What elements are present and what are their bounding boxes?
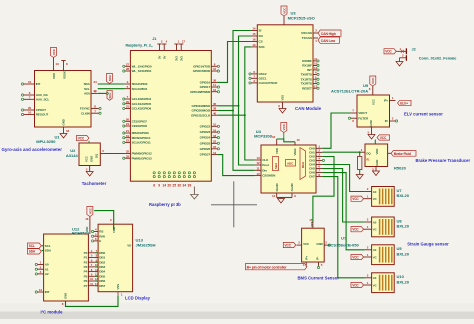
U2 power flag: [77, 136, 90, 144]
U13 reference and value fields: [136, 237, 156, 247]
svg-text:CLKOUT/SOF: CLKOUT/SOF: [259, 81, 278, 85]
svg-text:VCC: VCC: [303, 242, 310, 246]
wire tap GPIO19 MISO: [217, 105, 238, 107]
U1 left pins: [21, 80, 34, 115]
svg-text:TX2RTS: TX2RTS: [301, 82, 312, 86]
svg-text:TX0RTS: TX0RTS: [301, 73, 312, 77]
svg-text:Conn_01x02_Female: Conn_01x02_Female: [419, 56, 457, 60]
IMU U1 MPU-9250 body: [35, 71, 92, 128]
svg-text:26: 26: [126, 118, 130, 122]
wire CH4 to strain gauge 1: [322, 165, 364, 192]
svg-text:P4: P4: [84, 270, 88, 274]
annotation raspberry pi 3b: [149, 202, 181, 207]
svg-text:ACS712ELCTR-20A: ACS712ELCTR-20A: [331, 88, 368, 93]
svg-text:P3: P3: [84, 265, 88, 269]
svg-text:SDA: SDA: [108, 74, 112, 81]
connector J1 Raspberry Pi 3b body: [130, 51, 211, 182]
svg-text:SI: SI: [259, 29, 262, 33]
svg-text:VCC: VCC: [385, 50, 392, 54]
U11 VIOUT pin: [309, 218, 313, 228]
wire GPIO27 to MCP CS: [217, 155, 254, 176]
svg-text:A0: A0: [373, 190, 377, 194]
U4 ground symbol: [278, 198, 285, 204]
svg-text:DB1: DB1: [99, 256, 105, 260]
U1 pin names: [36, 69, 91, 125]
svg-text:GCLK2/GPIO6: GCLK2/GPIO6: [132, 107, 152, 111]
svg-text:VCC: VCC: [371, 77, 375, 84]
wire tap GPIO21 SCLK: [217, 114, 244, 116]
svg-text:CPOUT: CPOUT: [36, 108, 46, 112]
wire CAN SO to MCP Dout: [239, 36, 255, 165]
J1 left pin names: [132, 64, 152, 160]
J1 top power pins: [157, 40, 185, 62]
svg-text:U5: U5: [397, 246, 403, 251]
svg-text:JM1625SH: JM1625SH: [136, 242, 156, 247]
svg-text:11: 11: [257, 167, 260, 171]
svg-text:U9: U9: [363, 83, 369, 88]
svg-text:14: 14: [272, 194, 276, 198]
svg-text:J2: J2: [412, 47, 416, 51]
svg-text:MUX: MUX: [301, 162, 305, 168]
svg-text:PWM0/GPIO12: PWM0/GPIO12: [132, 152, 152, 156]
svg-text:11: 11: [94, 105, 97, 109]
svg-text:32: 32: [126, 150, 130, 154]
wire tap GPIO20 MOSI: [217, 110, 233, 112]
U4 bottom ground pins: [272, 193, 296, 198]
resistor ground: [356, 175, 363, 180]
svg-text:VCC: VCC: [352, 255, 359, 259]
junction MOSI bus: [232, 110, 234, 112]
svg-text:SCL: SCL: [29, 244, 35, 248]
svg-text:REGOUT: REGOUT: [36, 113, 49, 117]
svg-text:VIOUT: VIOUT: [310, 219, 314, 228]
svg-text:IP-: IP-: [316, 257, 320, 260]
svg-text:GND: GND: [369, 120, 373, 126]
svg-text:Raspberry_Pi_3.,.: Raspberry_Pi_3.,.: [126, 44, 154, 48]
svg-text:23: 23: [126, 139, 130, 143]
svg-text:38: 38: [213, 107, 217, 111]
svg-text:VIOUT: VIOUT: [358, 111, 367, 115]
svg-text:18: 18: [66, 129, 70, 133]
U1 right pins: [91, 80, 101, 114]
U4 power flag: [281, 123, 287, 140]
U4 reference and value fields: [254, 129, 273, 139]
svg-text:16: 16: [213, 128, 217, 132]
brake sensor power flag: [375, 135, 389, 144]
U4 left pin stubs and numbers: [255, 156, 261, 176]
svg-text:P1: P1: [84, 256, 88, 260]
svg-text:Brake Fluid: Brake Fluid: [394, 152, 411, 156]
pressure sensor U6 RS5020 body: [365, 144, 388, 167]
annotation gyro and accelerometer: [2, 147, 63, 152]
svg-text:GND: GND: [64, 293, 68, 299]
svg-text:6: 6: [153, 183, 155, 187]
svg-text:IP+: IP+: [305, 256, 309, 260]
svg-text:40: 40: [213, 111, 217, 115]
svg-text:10: 10: [256, 172, 260, 176]
junction MISO bus: [238, 105, 240, 107]
svg-text:Dout: Dout: [262, 163, 269, 167]
svg-text:R/W: R/W: [99, 234, 105, 238]
U12 address pins: [35, 261, 43, 275]
svg-text:DB6: DB6: [99, 279, 105, 283]
svg-text:A0: A0: [373, 248, 377, 252]
label SDA to U12: [28, 249, 44, 254]
svg-text:PWM1/GPIO13: PWM1/GPIO13: [132, 156, 152, 160]
brake sensor right label Brake Fluid: [388, 151, 416, 157]
svg-text:INT: INT: [36, 82, 41, 86]
svg-text:U7: U7: [397, 188, 403, 193]
svg-text:10: 10: [213, 67, 217, 71]
annotation tachometer: [82, 181, 107, 186]
label B+ pin of motor controller: [245, 264, 307, 270]
svg-text:CAN Low: CAN Low: [321, 39, 336, 43]
wire joining U4 grounds: [277, 197, 292, 199]
junction SCLK bus: [244, 114, 246, 116]
svg-text:36: 36: [213, 79, 217, 83]
current sensor U9 ACS712 body: [357, 95, 390, 127]
svg-text:U?: U?: [341, 236, 347, 241]
svg-text:CE0/GPIO8: CE0/GPIO8: [132, 124, 148, 128]
svg-text:14: 14: [162, 183, 166, 187]
power flag above U1: [51, 48, 57, 61]
svg-text:MCP2515-xSO: MCP2515-xSO: [288, 16, 315, 21]
svg-text:VSS: VSS: [281, 95, 285, 101]
U11 reference and value fields: [328, 236, 360, 248]
strain gauge U8 BXL20 body: [372, 217, 395, 237]
svg-text:33: 33: [126, 154, 130, 158]
svg-text:13: 13: [256, 156, 260, 160]
svg-text:MCP3208: MCP3208: [254, 134, 273, 139]
open wire end AD0: [106, 92, 108, 94]
svg-text:20: 20: [28, 106, 32, 110]
junction brake wire resistor: [359, 151, 361, 153]
hall sensor U2 A3144 body: [79, 143, 100, 166]
wire VCC to VDD and VREF: [277, 139, 295, 142]
U4 internal sample block: [273, 157, 279, 171]
svg-text:GPIO23: GPIO23: [200, 130, 211, 134]
svg-text:VCC: VCC: [282, 123, 286, 130]
U4 top power pins: [272, 135, 300, 145]
svg-text:28: 28: [126, 67, 130, 71]
U10 power label: [351, 282, 364, 287]
svg-text:VCC: VCC: [78, 136, 85, 140]
svg-text:VCC: VCC: [352, 197, 359, 201]
svg-text:GND: GND: [375, 160, 379, 166]
svg-text:BXL20: BXL20: [397, 279, 410, 284]
svg-text:FILTER: FILTER: [358, 116, 369, 120]
svg-text:SCK: SCK: [259, 45, 266, 49]
J1 reference and name: [126, 37, 157, 47]
svg-text:16: 16: [252, 38, 256, 42]
svg-text:3V3: 3V3: [179, 56, 183, 61]
U12 reference and value fields: [72, 227, 90, 236]
svg-text:SDA/GPIO2: SDA/GPIO2: [132, 82, 148, 86]
wire CH1 to brake sensor: [322, 151, 358, 153]
strain gauge U7 BXL20 body: [372, 187, 395, 207]
svg-text:14: 14: [252, 27, 256, 31]
wire U2 DQ to J1 PWM0: [105, 153, 125, 155]
svg-text:18: 18: [213, 134, 217, 138]
svg-text:P6: P6: [84, 279, 88, 283]
svg-text:5V: 5V: [162, 56, 166, 59]
U8 reference and value fields: [397, 218, 410, 228]
svg-text:WL_SC/GPIO1: WL_SC/GPIO1: [132, 69, 152, 73]
annotation ELV current sensor: [404, 112, 443, 117]
svg-text:VCC: VCC: [352, 283, 359, 287]
annotation strain gauge sensor: [407, 242, 449, 247]
svg-text:GPIO22: GPIO22: [200, 124, 211, 128]
svg-text:13: 13: [55, 62, 59, 66]
svg-text:Tachometer: Tachometer: [82, 181, 107, 186]
svg-text:DB5: DB5: [99, 274, 105, 278]
svg-text:VCC: VCC: [88, 207, 92, 214]
U9 pins: [348, 96, 397, 123]
U3 left pin stubs and numbers: [251, 27, 257, 47]
svg-text:VDD: VDD: [375, 149, 379, 155]
annotation LCD display: [125, 296, 151, 301]
svg-text:23: 23: [93, 89, 97, 93]
svg-text:INT: INT: [307, 68, 312, 72]
svg-text:30: 30: [177, 183, 181, 187]
brake sensor left pin: [359, 148, 365, 152]
svg-text:16: 16: [85, 217, 89, 221]
U13 left pin stubs: [92, 228, 99, 242]
svg-text:SDA: SDA: [29, 250, 36, 254]
svg-text:GPIO25: GPIO25: [200, 141, 211, 145]
CH3 open pin: [322, 159, 324, 161]
U9 reference and value fields: [331, 83, 369, 94]
U7 power label: [351, 196, 364, 201]
J1 ground symbol: [191, 187, 199, 200]
svg-text:IP+: IP+: [384, 99, 389, 103]
U13 VDD wire to VCC net: [94, 211, 114, 230]
svg-text:ELV+: ELV+: [400, 101, 408, 105]
svg-text:CLKIN: CLKIN: [81, 111, 91, 115]
editor crosshair cursor: [211, 181, 257, 227]
svg-text:CAN Module: CAN Module: [295, 106, 322, 111]
svg-text:9: 9: [158, 183, 160, 187]
annotation I2C module: [41, 310, 64, 315]
svg-text:PCF8574: PCF8574: [72, 230, 90, 235]
svg-text:SCL/GPIO3: SCL/GPIO3: [132, 87, 148, 91]
svg-text:R5020: R5020: [394, 165, 407, 170]
U1 bottom GND pin and ground: [60, 127, 69, 138]
svg-text:RS: RS: [99, 230, 103, 234]
J1 bottom ground pin markers: [153, 172, 195, 178]
U4 pin names: [262, 146, 315, 191]
annotation BMS current sensor: [298, 276, 340, 281]
svg-text:22: 22: [213, 140, 217, 144]
svg-text:RX1BF: RX1BF: [302, 64, 312, 68]
wire CH5 to strain gauge 2: [322, 169, 364, 222]
svg-text:CS/SHDN: CS/SHDN: [262, 174, 276, 178]
svg-text:21: 21: [126, 129, 130, 133]
svg-text:AUX_SCL: AUX_SCL: [36, 97, 50, 101]
wire CAN CS to GPIO16: [217, 42, 251, 83]
U12 INT pin: [35, 288, 43, 293]
label SDA on wire: [107, 74, 113, 84]
svg-text:U10: U10: [397, 274, 405, 279]
svg-text:SCL: SCL: [84, 87, 90, 91]
LCD U13 body: [98, 224, 133, 292]
svg-text:A2: A2: [45, 272, 49, 276]
svg-text:BMS Current Sensor: BMS Current Sensor: [298, 276, 340, 281]
svg-text:VCC: VCC: [285, 243, 292, 247]
annotation CAN module: [295, 106, 322, 111]
U3 right lower pins unconnected: [313, 57, 319, 89]
svg-text:31: 31: [126, 105, 130, 109]
svg-text:Gyro-axis and accelerometer: Gyro-axis and accelerometer: [2, 147, 63, 152]
svg-text:GCLK0/GPIO4: GCLK0/GPIO4: [132, 97, 152, 101]
svg-text:VREF: VREF: [293, 148, 297, 156]
svg-text:13: 13: [252, 43, 256, 47]
svg-text:Din: Din: [262, 168, 267, 172]
svg-text:VCC: VCC: [52, 48, 56, 55]
svg-text:24: 24: [93, 80, 97, 84]
wire CH6 to strain gauge 3: [322, 173, 364, 250]
svg-text:12: 12: [256, 161, 260, 165]
svg-text:Raspberry pI 3b: Raspberry pI 3b: [149, 202, 181, 207]
label ELV plus: [398, 100, 412, 105]
pulldown resistor R1: [358, 152, 362, 174]
U9 power flag: [369, 76, 376, 95]
U12 power flag: [85, 207, 93, 235]
wire SCL net U1 to J1: [98, 88, 125, 90]
svg-text:GND: GND: [90, 156, 94, 162]
svg-text:39: 39: [188, 183, 192, 187]
svg-text:GPIO18/PWM0: GPIO18/PWM0: [190, 90, 210, 94]
svg-text:VDD: VDD: [52, 72, 56, 79]
svg-text:GPIO27: GPIO27: [200, 153, 211, 157]
svg-text:CE1/GPIO7: CE1/GPIO7: [132, 119, 148, 123]
U8 power label: [351, 227, 364, 232]
svg-text:VDD: VDD: [275, 148, 279, 154]
wire CAN SI to MCP Din: [233, 31, 255, 171]
wire CH7 to strain gauge 4: [322, 177, 364, 278]
J2 no-connect cross: [401, 50, 404, 53]
svg-text:RXCAN: RXCAN: [301, 31, 312, 35]
U2 output pin to J1: [100, 149, 104, 154]
wire U1 AD0 stub: [98, 92, 107, 94]
U2 ground: [86, 166, 93, 177]
svg-text:E: E: [99, 239, 101, 243]
svg-text:AGND: AGND: [290, 183, 294, 191]
annotation brake pressure transducer: [416, 158, 471, 163]
U12 right pin numbers: [88, 249, 98, 286]
svg-text:P7: P7: [84, 284, 88, 288]
svg-text:VCC: VCC: [282, 7, 286, 14]
U11 GND pin: [324, 241, 330, 247]
svg-text:29: 29: [126, 100, 130, 104]
brake sensor ground: [372, 167, 379, 176]
svg-text:VCC: VCC: [371, 98, 375, 105]
svg-text:ACS758xCB-050: ACS758xCB-050: [328, 242, 360, 247]
svg-text:ELV current sensor: ELV current sensor: [404, 112, 443, 117]
label SCL on wire: [107, 90, 112, 100]
svg-text:INT: INT: [45, 290, 50, 294]
svg-text:RESET: RESET: [302, 86, 312, 90]
svg-text:5V: 5V: [158, 56, 162, 59]
U4 internal ADC block: [286, 160, 296, 167]
U3 reference and value fields: [288, 10, 315, 20]
U3 bottom VSS ground: [278, 102, 286, 113]
U3 pin names: [259, 29, 313, 101]
label SCL to U12: [28, 243, 44, 248]
U8 pins: [364, 218, 372, 230]
svg-text:BXL20: BXL20: [397, 251, 410, 256]
svg-text:VCC: VCC: [380, 136, 387, 140]
svg-text:15: 15: [296, 138, 300, 142]
CAN controller U3 MCP2515 body: [257, 25, 313, 102]
label CAN High: [318, 30, 341, 36]
svg-text:SCL: SCL: [108, 92, 112, 98]
svg-text:RX0BF: RX0BF: [302, 59, 312, 63]
svg-text:GPIO20/MOSI: GPIO20/MOSI: [191, 109, 210, 113]
svg-text:27: 27: [126, 63, 130, 67]
J1 left pin stubs and numbers: [123, 63, 131, 160]
strain gauge U5 BXL20 body: [372, 245, 395, 265]
svg-text:AD0: AD0: [84, 92, 90, 96]
ADC U4 MCP3208 body: [261, 145, 316, 193]
wire CH2 to BMS VIOUT: [313, 157, 334, 223]
wire CH0 to ELV VIOUT: [322, 113, 350, 148]
svg-text:GPIO19/MISO: GPIO19/MISO: [191, 104, 210, 108]
svg-text:SDA: SDA: [84, 82, 91, 86]
svg-text:CLK: CLK: [262, 158, 269, 162]
svg-text:P2: P2: [84, 260, 88, 264]
svg-text:P5: P5: [84, 274, 88, 278]
svg-text:BXL20: BXL20: [397, 224, 410, 229]
J1 bottom pin numbers: [153, 183, 191, 187]
svg-text:Brake Pressure Transducer: Brake Pressure Transducer: [416, 158, 471, 163]
J2 power label VCC: [384, 49, 396, 54]
svg-text:SCL: SCL: [45, 244, 51, 248]
connector J2 body: [396, 47, 406, 61]
svg-text:11: 11: [90, 282, 93, 286]
svg-text:OSC1: OSC1: [259, 76, 267, 80]
svg-text:3V3: 3V3: [175, 56, 179, 61]
U7 pins: [364, 187, 372, 199]
svg-text:VSS: VSS: [116, 284, 120, 290]
svg-text:J1: J1: [152, 37, 156, 41]
svg-text:DB3: DB3: [99, 265, 105, 269]
svg-text:DB7: DB7: [99, 284, 105, 288]
svg-text:WL_SA/GPIO0: WL_SA/GPIO0: [132, 64, 152, 68]
svg-text:A1: A1: [45, 267, 49, 271]
J2 reference and value fields: [412, 47, 457, 60]
U4 right pin stubs: [316, 145, 322, 177]
U5 reference and value fields: [397, 246, 410, 256]
U3 OSC pins unconnected: [249, 70, 257, 84]
wire SDA net U1 to J1: [98, 83, 125, 85]
svg-text:24: 24: [126, 122, 130, 126]
U12 to LCD data wires: [95, 253, 98, 286]
svg-text:25: 25: [172, 183, 176, 187]
svg-text:MOSI/GPIO10: MOSI/GPIO10: [132, 136, 151, 140]
svg-text:MISO/GPIO9: MISO/GPIO9: [132, 131, 149, 135]
svg-text:CS: CS: [259, 40, 263, 44]
window bottom strip: [0, 312, 474, 320]
U3 right pins RXCAN TXCAN: [313, 29, 318, 44]
svg-text:GPIO16: GPIO16: [200, 81, 211, 85]
svg-text:TXCAN: TXCAN: [302, 36, 313, 40]
svg-text:19: 19: [126, 134, 130, 138]
U1 top pins VDD VDDIO: [54, 61, 69, 71]
svg-text:13: 13: [213, 151, 217, 155]
svg-text:GPIO24: GPIO24: [200, 136, 211, 140]
svg-text:A0: A0: [373, 220, 377, 224]
